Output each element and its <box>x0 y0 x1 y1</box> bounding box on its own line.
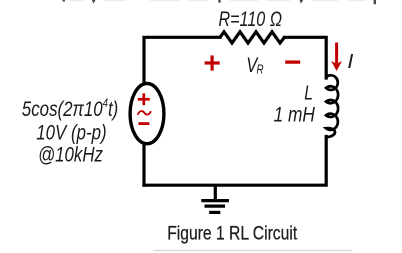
svg-text:@10kHz: @10kHz <box>38 143 103 167</box>
resistor R 110 ohm zigzag <box>220 32 285 43</box>
VR minus polarity <box>285 60 300 63</box>
faint table line bottom <box>153 249 352 251</box>
wire right-bottom and bottom segment <box>144 137 326 186</box>
wire left and top-left segment <box>144 37 220 185</box>
svg-text:Figure 1 RL Circuit: Figure 1 RL Circuit <box>167 223 297 245</box>
svg-text:L: L <box>304 81 313 104</box>
source sine tilde <box>138 111 151 115</box>
svg-text:I: I <box>347 51 353 73</box>
voltage source V1 ellipse <box>130 84 164 144</box>
ground <box>201 185 229 212</box>
current arrow I <box>335 43 338 64</box>
svg-text:10V (p-p): 10V (p-p) <box>36 120 106 144</box>
svg-text:R: R <box>257 62 264 77</box>
svg-text:R=110 Ω: R=110 Ω <box>219 8 283 31</box>
VR plus polarity <box>205 55 220 70</box>
inductor L coil <box>326 75 338 137</box>
wire top-right segment down to inductor <box>285 37 327 78</box>
source plus sign <box>138 93 150 105</box>
source minus sign <box>138 122 149 125</box>
cut-off text remnants top edge <box>63 0 377 4</box>
svg-text:1 mH: 1 mH <box>274 104 316 127</box>
